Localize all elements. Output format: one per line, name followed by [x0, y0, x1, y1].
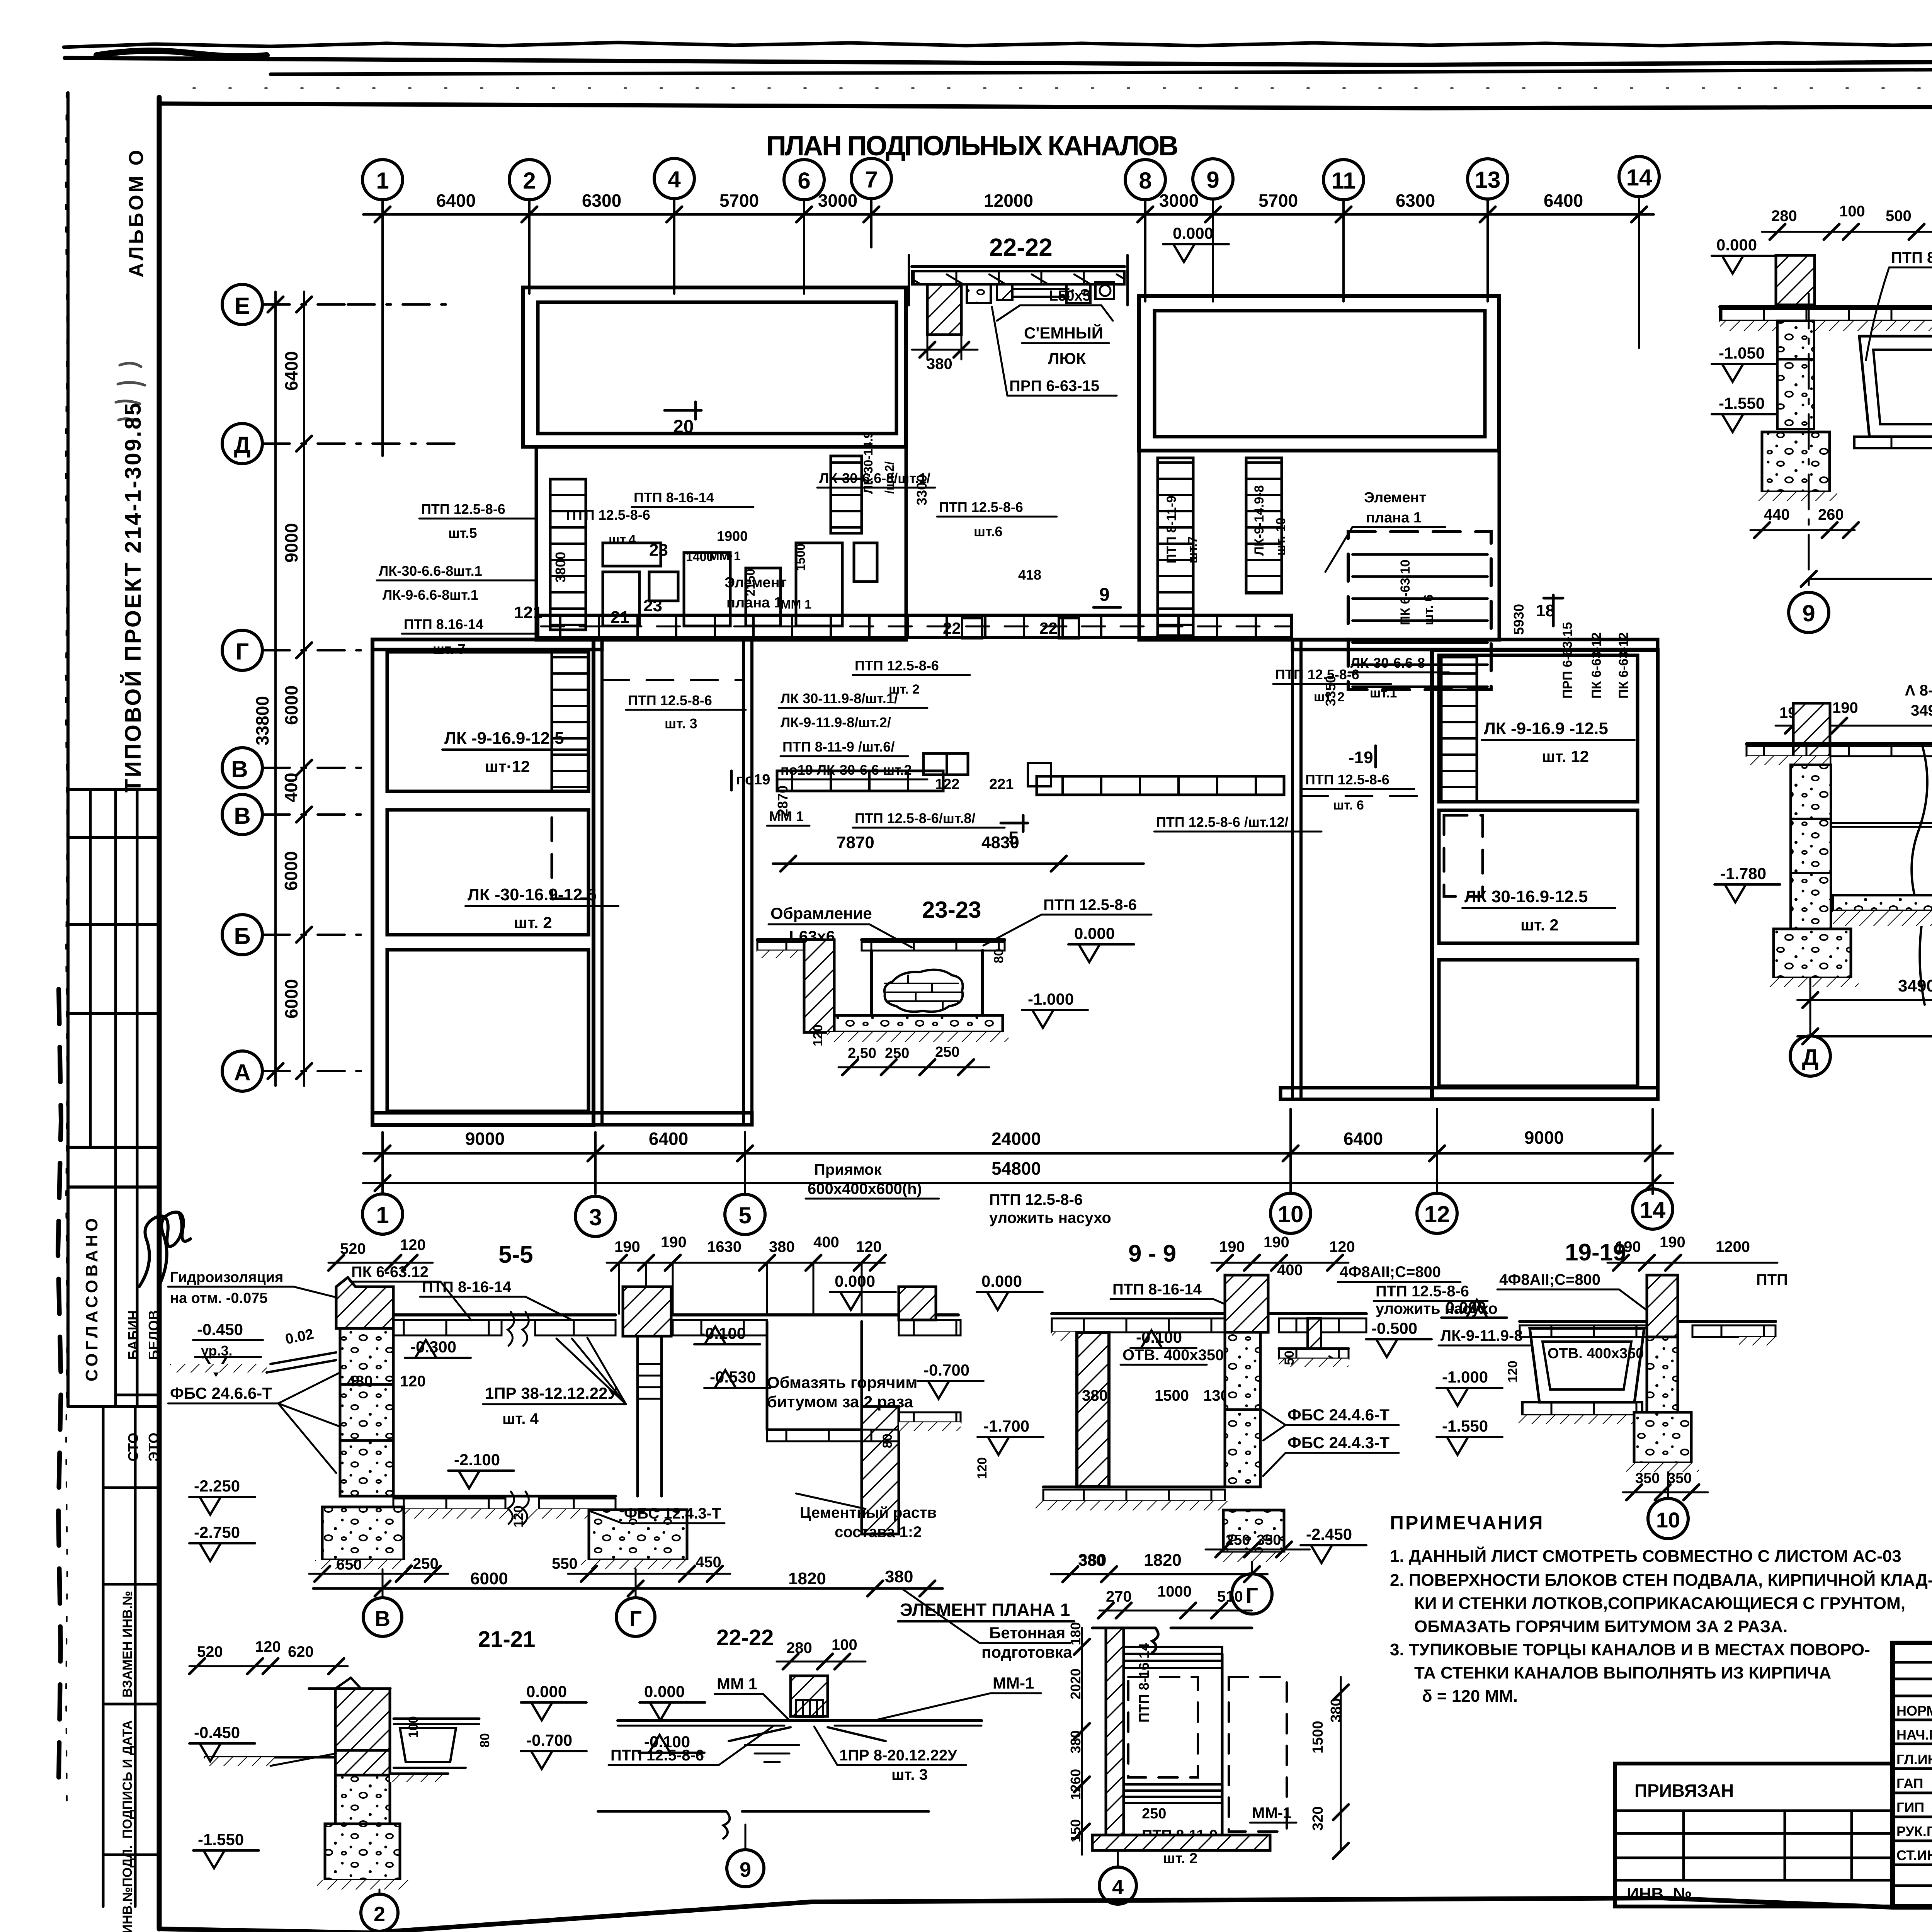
18-18 ground hatch under footing: [1756, 492, 1837, 501]
svg-text:ИНВ.№ПОДЛ.: ИНВ.№ПОДЛ.: [120, 1845, 135, 1932]
svg-text:ЛК 30-16.9-12.5: ЛК 30-16.9-12.5: [1464, 887, 1588, 906]
top dimension line: [363, 213, 1654, 216]
18-18 axis stubs: [1808, 294, 1810, 591]
svg-text:ПК 6-63.12: ПК 6-63.12: [351, 1264, 429, 1281]
svg-text:ПТП 8-16-14: ПТП 8-16-14: [634, 490, 714, 505]
svg-text:600х400х600(h): 600х400х600(h): [808, 1180, 922, 1197]
svg-text:6400: 6400: [436, 190, 476, 211]
small channel row at V band: [777, 771, 943, 791]
svg-text:24000: 24000: [992, 1129, 1041, 1149]
bottom circle row 3: [575, 1196, 616, 1236]
svg-text:ЛК-30-14.9: ЛК-30-14.9: [861, 432, 875, 494]
svg-text:4: 4: [668, 167, 681, 192]
privyazan rows: [1615, 1811, 1893, 1880]
svg-text:В: В: [234, 803, 250, 829]
22-22 removable hatch lid: [1012, 288, 1068, 290]
svg-text:ПТП 8-16.14: ПТП 8-16.14: [1136, 1643, 1152, 1723]
privyazan box: [1615, 1764, 1893, 1906]
svg-text:380: 380: [769, 1238, 795, 1255]
5-5 floor slab: [393, 1313, 616, 1316]
svg-text:Элемент: Элемент: [724, 575, 787, 591]
svg-text:1: 1: [376, 1202, 389, 1228]
svg-text:0.000: 0.000: [1716, 236, 1757, 254]
svg-text:418: 418: [1018, 567, 1041, 583]
chain line 1: [363, 1152, 1673, 1155]
5-5 left parapet hatched: [336, 1277, 393, 1328]
svg-text:3800: 3800: [553, 552, 568, 583]
svg-text:битумом за 2 раза: битумом за 2 раза: [767, 1393, 913, 1411]
svg-text:шт.5: шт.5: [448, 525, 477, 541]
svg-text:шт. 3: шт. 3: [665, 716, 697, 731]
svg-text:0.000: 0.000: [526, 1682, 567, 1701]
23-23 ground hatch below: [827, 1032, 1009, 1042]
svg-text:221: 221: [989, 776, 1014, 793]
svg-text:4: 4: [1112, 1876, 1124, 1899]
sect1818 group: [1712, 175, 1932, 634]
svg-text:ОТВ. 400х350: ОТВ. 400х350: [1548, 1345, 1644, 1362]
top dim labels: [436, 190, 1583, 211]
svg-text:-1.050: -1.050: [1719, 344, 1765, 362]
svg-text:ЛК-30-6.6-8шт.1: ЛК-30-6.6-8шт.1: [379, 563, 482, 579]
svg-text:190: 190: [1219, 1238, 1245, 1255]
20-20 bottom slab band: [1833, 895, 1932, 911]
svg-text:шт.1: шт.1: [1370, 686, 1397, 701]
svg-text:В: В: [231, 756, 248, 782]
svg-text:480: 480: [347, 1373, 373, 1390]
mid-left vertical strip2: [831, 456, 862, 533]
elemplan top floor line w break: [1092, 1628, 1252, 1653]
svg-text:190: 190: [661, 1234, 687, 1251]
svg-text:шт. 2: шт. 2: [514, 913, 552, 932]
9-9 floor slab: [1052, 1312, 1366, 1315]
svg-text:400: 400: [281, 773, 301, 803]
svg-text:280: 280: [1771, 207, 1797, 224]
5-5 mid pier hatched: [623, 1287, 671, 1336]
planlabels group: [377, 402, 1634, 934]
svg-text:400: 400: [813, 1234, 839, 1251]
svg-text:ПК 6-63.10: ПК 6-63.10: [1398, 560, 1413, 625]
9-9 mid wall below: [1225, 1332, 1260, 1410]
axes group: [222, 156, 1659, 1091]
svg-text:шт. 2: шт. 2: [889, 682, 920, 697]
19-19 trough bottom slab: [1522, 1402, 1642, 1415]
svg-text:шт. 6: шт. 6: [1421, 594, 1436, 625]
22-22 small blocks: [967, 284, 991, 303]
svg-text:состава 1:2: состава 1:2: [835, 1524, 922, 1541]
21-21 wall hatched lower: [335, 1750, 390, 1775]
svg-text:ПРП 6-63-15: ПРП 6-63-15: [1009, 378, 1099, 395]
22-22 hatched pier: [927, 284, 961, 335]
svg-text:2: 2: [523, 168, 536, 194]
svg-text:-1.550: -1.550: [1442, 1417, 1488, 1435]
svg-text:-0.500: -0.500: [1371, 1319, 1417, 1337]
svg-text:510: 510: [1217, 1588, 1243, 1605]
5-5 vertical stubs at dims: [619, 1263, 862, 1314]
svg-text:190: 190: [614, 1238, 640, 1255]
svg-text:ПРИМЕЧАНИЯ: ПРИМЕЧАНИЯ: [1390, 1512, 1544, 1534]
notes group: [1390, 1512, 1932, 1706]
svg-text:Д: Д: [1802, 1044, 1819, 1070]
svg-text:23: 23: [649, 541, 668, 560]
5-5 slab break: [508, 1312, 529, 1346]
signature table rows: [1893, 1662, 1932, 1886]
svg-text:120: 120: [400, 1236, 426, 1253]
svg-text:А: А: [234, 1060, 250, 1085]
5-5 left wall blocks: [340, 1328, 393, 1384]
5-5 axis circle V1: [363, 1598, 402, 1636]
svg-text:120: 120: [511, 1505, 526, 1527]
plan group: [372, 287, 1658, 1125]
lower-left room 2: [387, 810, 588, 935]
svg-text:ММ 1: ММ 1: [769, 808, 804, 824]
svg-text:9: 9: [1099, 585, 1110, 605]
svg-text:-2.100: -2.100: [454, 1451, 500, 1469]
svg-text:21-21: 21-21: [478, 1627, 535, 1652]
18-18 floor left segment: [1720, 305, 1932, 308]
23-23 bottom slab: [834, 1015, 1003, 1032]
svg-text:120: 120: [1505, 1361, 1520, 1383]
svg-text:3490: 3490: [1898, 976, 1932, 995]
svg-text:250: 250: [1226, 1532, 1250, 1548]
svg-text:δ = 120 ММ.: δ = 120 ММ.: [1422, 1687, 1518, 1706]
svg-text:9 - 9: 9 - 9: [1128, 1240, 1176, 1267]
svg-text:1ПР 38-12.12.22У: 1ПР 38-12.12.22У: [485, 1384, 618, 1402]
5-5 hatched right pier top: [899, 1287, 936, 1320]
svg-text:ЛК-9-11.9-8/шт.2/: ЛК-9-11.9-8/шт.2/: [781, 714, 891, 730]
axis circle 4: [654, 158, 694, 199]
svg-text:10: 10: [1656, 1508, 1680, 1532]
left chain ticks: [268, 297, 312, 1079]
svg-text:ОТВ. 400х350: ОТВ. 400х350: [1122, 1347, 1224, 1364]
svg-text:121: 121: [514, 603, 542, 622]
18-18 trough bottom slab: [1854, 437, 1932, 448]
sect1919 group: [1437, 1234, 1788, 1539]
sect2323 group: [757, 896, 1151, 1075]
svg-text:450: 450: [696, 1554, 721, 1571]
svg-text:11: 11: [1331, 168, 1355, 194]
G wall right: [1293, 639, 1658, 650]
svg-text:0.000: 0.000: [1173, 224, 1213, 242]
stubs from plan to chain: [383, 1109, 1653, 1194]
svg-text:шт.7: шт.7: [1185, 536, 1200, 563]
svg-text:Обрамление: Обрамление: [770, 904, 872, 922]
18-18 bottom dim line: [1809, 578, 1932, 580]
21-21 wall hatched upper: [335, 1689, 390, 1750]
9-9 left wall hatched tall: [1077, 1332, 1109, 1487]
svg-text:380: 380: [927, 355, 952, 372]
svg-text:Бетонная: Бетонная: [989, 1624, 1065, 1642]
19-19 mid pier hatched: [1647, 1275, 1678, 1337]
elemplan axis circle 4: [1099, 1867, 1136, 1904]
svg-text:20: 20: [673, 417, 694, 437]
22-22 left end bars: [908, 255, 910, 305]
svg-text:6000: 6000: [281, 685, 301, 725]
5-5 bottom slab: [393, 1495, 616, 1498]
svg-text:3350: 3350: [1323, 675, 1338, 706]
lower-left room 1: [387, 652, 588, 791]
svg-text:по19 ЛК-30-6.6 шт.2: по19 ЛК-30-6.6 шт.2: [781, 762, 912, 778]
sidebar group: [68, 93, 190, 1932]
svg-text:6400: 6400: [1544, 190, 1583, 211]
21-21 channel trough right: [394, 1718, 479, 1720]
5-5 mid pier walls below: [636, 1336, 639, 1496]
mid-left small channel boxes: [603, 543, 877, 626]
svg-text:0.000: 0.000: [835, 1272, 875, 1290]
svg-text:1200: 1200: [1716, 1238, 1750, 1255]
svg-text:Элемент: Элемент: [1364, 490, 1426, 506]
svg-text:120: 120: [1329, 1238, 1355, 1255]
18-18 left pier blocks below: [1777, 321, 1814, 359]
svg-text:ТИПОВОЙ ПРОЕКТ 214-1-309.85: ТИПОВОЙ ПРОЕКТ 214-1-309.85: [121, 401, 146, 793]
svg-text:320: 320: [1310, 1806, 1326, 1831]
svg-text:5700: 5700: [1259, 190, 1298, 211]
svg-text:350: 350: [1257, 1532, 1281, 1548]
element plan 1 room dashed: [1348, 532, 1491, 690]
mid-right ladder strip 1: [1158, 458, 1193, 636]
20-20 ground hatch top: [1747, 756, 1830, 765]
21-21 axis circle 2: [361, 1894, 398, 1931]
20-20 left pier hatched: [1793, 703, 1830, 781]
svg-text:-2.750: -2.750: [194, 1523, 240, 1541]
svg-text:6: 6: [798, 168, 810, 194]
sidebar outer left line: [66, 93, 70, 1406]
21-21 ground hatch right of wall: [390, 1774, 448, 1782]
svg-text:12000: 12000: [984, 190, 1033, 211]
svg-text:уложить насухо: уложить насухо: [989, 1209, 1111, 1226]
svg-text:ТА СТЕНКИ КАНАЛОВ ВЫПОЛНЯТЬ: ТА СТЕНКИ КАНАЛОВ ВЫПОЛНЯТЬ ИЗ КИРПИЧА: [1414, 1663, 1831, 1682]
elemplan left dims rot: [1068, 1622, 1083, 1842]
svg-text:ПК 6-63-12: ПК 6-63-12: [1589, 632, 1604, 699]
elemplan right wall dashed: [1229, 1677, 1287, 1832]
left axis row E: [222, 284, 262, 325]
bottom wall left: [372, 1113, 752, 1125]
svg-text:14: 14: [1640, 1197, 1666, 1223]
svg-text:-1.780: -1.780: [1720, 864, 1766, 883]
svg-text:ПТП 8-11-9 /шт.6/: ПТП 8-11-9 /шт.6/: [782, 739, 895, 755]
svg-text:шт. 7: шт. 7: [433, 641, 466, 657]
bottom circle row 14: [1633, 1189, 1673, 1229]
elemplan left wall hatched: [1106, 1628, 1124, 1835]
5-5 mid footing: [589, 1510, 687, 1560]
21-21 wall top break: [335, 1678, 361, 1689]
svg-text:120: 120: [975, 1457, 990, 1479]
svg-text:ПТП 8.16-14: ПТП 8.16-14: [404, 616, 483, 632]
sect2121 group: [189, 1627, 587, 1931]
lower-left block outer: [372, 639, 594, 1125]
18-18 trough LK-30-11.9-8: [1859, 336, 1932, 437]
svg-text:6400: 6400: [281, 351, 301, 391]
svg-text:-0.450: -0.450: [197, 1320, 243, 1338]
svg-text:380: 380: [885, 1567, 913, 1586]
svg-text:5: 5: [1009, 828, 1019, 849]
22-22b bottom line w break: [598, 1811, 929, 1838]
axis circle 14: [1619, 156, 1659, 197]
svg-text:3300: 3300: [914, 474, 930, 505]
18-18 left pier hatched: [1776, 255, 1815, 305]
lr room2 dashed box: [1444, 815, 1483, 896]
sidebar cells verticals: [90, 789, 137, 1406]
upper-left block outer wall: [523, 287, 906, 447]
dim ticks on top line: [375, 207, 1647, 222]
20-20 left footing: [1774, 929, 1851, 978]
svg-text:ПТП 12.5-8-6: ПТП 12.5-8-6: [1043, 896, 1137, 913]
titleblock group: [1615, 1643, 1932, 1906]
bottom circle row 1: [362, 1194, 403, 1234]
left axis row B: [222, 915, 262, 955]
svg-text:ММ-1: ММ-1: [1252, 1804, 1291, 1821]
svg-text:ММ-1: ММ-1: [993, 1674, 1034, 1692]
room2 dashed channel: [552, 810, 588, 899]
svg-text:520: 520: [197, 1643, 223, 1660]
svg-text:6400: 6400: [649, 1129, 688, 1149]
svg-text:1ПР 8-20.12.22У: 1ПР 8-20.12.22У: [839, 1747, 957, 1764]
svg-text:плана 1: плана 1: [726, 595, 782, 611]
svg-text:260: 260: [1818, 506, 1844, 523]
5-5 ground line left: [170, 1364, 267, 1372]
svg-text:23-23: 23-23: [922, 897, 981, 923]
left axis row A: [222, 1051, 262, 1091]
9-9 mid footing: [1223, 1510, 1284, 1553]
22-22 slab band: [912, 271, 1124, 284]
svg-text:ЛК -9-16.9-12.5: ЛК -9-16.9-12.5: [444, 729, 564, 748]
svg-text:5700: 5700: [719, 190, 759, 211]
svg-text:2. ПОВЕРХНОСТИ БЛОКОВ СТЕН ПОД: 2. ПОВЕРХНОСТИ БЛОКОВ СТЕН ПОДВАЛА, КИРП…: [1390, 1570, 1932, 1590]
left axis row D: [222, 423, 262, 464]
svg-text:ПТП 12.5-8-6: ПТП 12.5-8-6: [628, 692, 712, 708]
22-22b small bars: [796, 1700, 823, 1717]
svg-text:ПЛАН ПОДПОЛЬНЫХ КАНАЛОВ: ПЛАН ПОДПОЛЬНЫХ КАНАЛОВ: [766, 131, 1182, 162]
svg-text:ИНВ. №: ИНВ. №: [1627, 1884, 1692, 1903]
svg-text:6300: 6300: [1396, 190, 1435, 211]
19-19 axis circle 10: [1648, 1498, 1688, 1539]
upper-right block inner room: [1155, 311, 1485, 437]
svg-text:ММ·1: ММ·1: [709, 549, 741, 563]
svg-text:ПТП 12.5-8-6: ПТП 12.5-8-6: [1376, 1283, 1469, 1300]
svg-text:Обмазять горячим: Обмазять горячим: [767, 1373, 917, 1391]
axis circle 2: [509, 160, 549, 200]
svg-text:ПТП 12.5-8-6: ПТП 12.5-8-6: [989, 1191, 1083, 1208]
svg-text:13: 13: [1475, 167, 1501, 193]
svg-text:СТ.ИНЖЕНЕР: СТ.ИНЖЕНЕР: [1896, 1847, 1932, 1863]
svg-text:22: 22: [943, 619, 961, 637]
22-22b hatched box: [791, 1676, 828, 1716]
5-5 right floor strip: [673, 1313, 958, 1316]
5-5 priyamok hatched wall: [862, 1406, 899, 1534]
svg-text:3. ТУПИКОВЫЕ ТОРЦЫ КАНАЛОВ: 3. ТУПИКОВЫЕ ТОРЦЫ КАНАЛОВ И В МЕСТАХ ПО…: [1390, 1640, 1870, 1659]
svg-text:6400: 6400: [1344, 1129, 1383, 1149]
svg-text:8: 8: [1139, 168, 1151, 194]
svg-text:270: 270: [1106, 1588, 1132, 1605]
svg-text:80: 80: [880, 1434, 895, 1448]
svg-text:1: 1: [376, 168, 389, 194]
18-18 left dims 280 100 500: [1771, 203, 1912, 224]
svg-text:/шт.2/: /шт.2/: [883, 461, 896, 494]
axis circle 11: [1323, 160, 1364, 200]
19-19 trough: [1530, 1328, 1644, 1402]
svg-text:5930: 5930: [1511, 604, 1527, 635]
svg-text:190: 190: [1615, 1238, 1641, 1255]
corridor wall B: [743, 639, 752, 1125]
svg-text:на отм. -0.075: на отм. -0.075: [170, 1290, 268, 1306]
svg-text:380: 380: [1082, 1387, 1108, 1404]
svg-text:120: 120: [856, 1238, 882, 1255]
svg-text:-0.700: -0.700: [526, 1731, 572, 1749]
svg-text:Б: Б: [234, 923, 250, 949]
svg-text:100: 100: [406, 1716, 421, 1738]
axis circle 7: [851, 158, 891, 199]
top border line A: [65, 58, 1932, 65]
left axis row G: [222, 630, 262, 670]
svg-text:1. ДАННЫЙ ЛИСТ СМОТРЕТЬ СОВМЕ: 1. ДАННЫЙ ЛИСТ СМОТРЕТЬ СОВМЕСТНО С ЛИСТ…: [1390, 1546, 1901, 1566]
9-9 top dims: [1219, 1234, 1355, 1279]
svg-text:ФБС 12.4.3-Т: ФБС 12.4.3-Т: [624, 1505, 721, 1522]
svg-text:122: 122: [935, 776, 959, 793]
svg-text:Г: Г: [236, 639, 249, 665]
svg-text:ОБМАЗАТЬ ГОРЯЧИМ БИТУМОМ ЗА: ОБМАЗАТЬ ГОРЯЧИМ БИТУМОМ ЗА 2 РАЗА.: [1414, 1617, 1787, 1636]
svg-text:21: 21: [611, 608, 629, 627]
svg-text:22: 22: [1039, 619, 1058, 637]
svg-text:НАЧ.МАСТ.1: НАЧ.МАСТ.1: [1896, 1727, 1932, 1743]
sect2222top group: [906, 224, 1229, 396]
svg-text:ММ 1: ММ 1: [717, 1675, 757, 1693]
svg-text:14: 14: [1626, 165, 1652, 190]
svg-text:120: 120: [811, 1024, 825, 1046]
svg-text:4Ф8АII;С=800: 4Ф8АII;С=800: [1340, 1264, 1441, 1281]
20-20 left wall concrete below: [1791, 765, 1831, 819]
elemplan mid band rows: [1124, 1784, 1222, 1803]
svg-text:23: 23: [643, 596, 662, 615]
svg-text:-1.000: -1.000: [1442, 1368, 1488, 1386]
svg-text:ПК 6-63-12: ПК 6-63-12: [1616, 632, 1631, 699]
lower-left room 3: [387, 950, 588, 1111]
svg-text:10: 10: [1278, 1201, 1304, 1227]
21-21 top dims 520 120 620: [197, 1638, 314, 1660]
svg-text:ПТП 12.5-8-6 /шт.12/: ПТП 12.5-8-6 /шт.12/: [1156, 814, 1288, 830]
mid channel horizontal band: [538, 615, 1291, 638]
svg-text:9: 9: [1206, 167, 1219, 193]
svg-text:1900: 1900: [717, 528, 748, 544]
torn paper top edge: [64, 43, 1932, 47]
svg-text:620: 620: [288, 1643, 314, 1660]
svg-text:400: 400: [1277, 1262, 1303, 1279]
botdims group: [362, 1109, 1673, 1236]
soglasovano cell: [68, 1405, 159, 1408]
svg-text:0.000: 0.000: [981, 1272, 1022, 1290]
bottom circle row 5: [725, 1194, 765, 1235]
bottom margin labels box: [103, 1406, 159, 1906]
svg-text:9: 9: [740, 1858, 751, 1881]
svg-text:80: 80: [992, 949, 1006, 963]
svg-text:1820: 1820: [788, 1569, 826, 1588]
20-20 axis circle D: [1790, 1036, 1830, 1076]
small channel row2 at V band right: [1037, 776, 1284, 795]
svg-text:ЛК -9-16.9 -12.5: ЛК -9-16.9 -12.5: [1484, 719, 1608, 738]
svg-text:Г: Г: [629, 1606, 642, 1631]
19-19 floor slab: [1520, 1320, 1776, 1323]
svg-text:Г: Г: [1246, 1583, 1258, 1607]
svg-text:L50х5: L50х5: [1049, 288, 1091, 304]
22-22 floor double line: [906, 252, 1121, 252]
svg-text:250: 250: [413, 1555, 439, 1572]
svg-text:ЛК-30-6.6-8: ЛК-30-6.6-8: [1350, 655, 1425, 671]
lower-right room 1: [1439, 655, 1638, 802]
21-21 wall concrete: [335, 1775, 390, 1824]
svg-text:ММ 1: ММ 1: [781, 597, 811, 611]
left vertical dim chain lines: [274, 292, 277, 1086]
svg-text:-0.700: -0.700: [923, 1361, 969, 1379]
20-20 top dim line: [1776, 725, 1932, 727]
svg-text:5: 5: [738, 1202, 751, 1228]
